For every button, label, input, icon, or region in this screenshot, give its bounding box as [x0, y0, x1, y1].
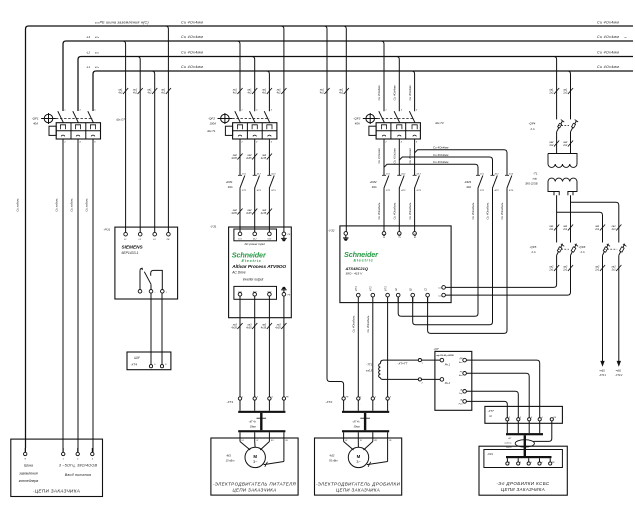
circuit breaker QF1 — [32, 109, 126, 143]
svg-text:2х2: 2х2 — [562, 92, 568, 95]
wire QF2 pole2 (L2) — [252, 57, 255, 112]
input panel box outline — [11, 439, 103, 496]
svg-text:=кВ1: =кВ1 — [599, 369, 605, 372]
svg-text:4х2: 4х2 — [161, 92, 166, 95]
current transformer TT1 — [366, 363, 380, 378]
svg-text:-Х31: -Х31 — [487, 452, 493, 456]
relay box QT — [434, 347, 472, 411]
svg-text:4х2: 4х2 — [247, 92, 252, 95]
svg-text:40А: 40А — [372, 185, 377, 189]
svg-text:1/L1: 1/L1 — [386, 174, 390, 176]
svg-text:Cu 4Окабель: Cu 4Окабель — [500, 202, 504, 220]
wire TT1 sec 1 — [380, 359, 440, 366]
svg-text:Cu 4Ох4мм: Cu 4Ох4мм — [181, 20, 203, 24]
screened cable M1 — [238, 411, 285, 433]
svg-text:1/L1: 1/L1 — [384, 233, 386, 238]
wire ATV900 output — [231, 318, 242, 397]
svg-text:Cu 4Окабель: Cu 4Окабель — [471, 202, 475, 220]
svg-text:-QF1: -QF1 — [32, 116, 39, 120]
svg-text:1/L1: 1/L1 — [480, 174, 484, 176]
svg-text:4х35: 4х35 — [231, 157, 237, 160]
wire PE left drop — [16, 198, 26, 452]
wire ATV900 output — [246, 318, 257, 397]
wire ATS48 T1 out — [352, 303, 359, 397]
wire QF5 out1 to ATS48 CL1 — [445, 255, 556, 287]
svg-text:-КМ1: -КМ1 — [226, 180, 233, 184]
wire M1 phase a — [240, 432, 250, 450]
wire QT out3 — [466, 391, 518, 417]
svg-text:-РЕ шина заземления н(С): -РЕ шина заземления н(С) — [98, 20, 149, 24]
svg-text:Рн.1: Рн.1 — [445, 363, 451, 367]
svg-text:Шк.Т1: Шк.Т1 — [208, 129, 216, 133]
wire M2 phase b — [358, 432, 362, 447]
svg-text:Шк.Т3: Шк.Т3 — [436, 121, 444, 125]
wire T1-QF6 branch left — [557, 212, 603, 222]
svg-text:6ЕР1433-1: 6ЕР1433-1 — [122, 251, 139, 255]
wire PSU L2 drop — [132, 57, 143, 233]
svg-text:4х2: 4х2 — [339, 92, 344, 95]
control box ШУ -ХТ4 — [127, 352, 171, 370]
svg-text:2/Т1: 2/Т1 — [385, 190, 390, 192]
svg-text:-УЗ1: -УЗ1 — [210, 224, 217, 228]
svg-text:4х2: 4х2 — [147, 92, 152, 95]
svg-text:38О - 415 V: 38О - 415 V — [346, 272, 364, 276]
svg-text:Cu кабель: Cu кабель — [85, 198, 89, 212]
svg-text:АТS48С21Q: АТS48С21Q — [345, 266, 369, 271]
svg-text:-ХТ1: -ХТ1 — [227, 400, 234, 404]
svg-text:1: 1 — [385, 109, 386, 111]
svg-text:ДВ: ДВ — [459, 358, 463, 360]
svg-text:1/L1: 1/L1 — [242, 174, 246, 176]
input panel terminals — [24, 448, 95, 461]
svg-text:40А: 40А — [355, 121, 360, 125]
power supply PS1 (SIEMENS) — [104, 227, 178, 299]
svg-text:2х1: 2х1 — [548, 228, 554, 231]
svg-text:Cu 4Окабель: Cu 4Окабель — [352, 315, 356, 333]
wire QF2 pole1 (L3) — [237, 41, 240, 111]
terminal XT=TT label — [397, 362, 407, 366]
wire KM2-ATS c — [408, 189, 415, 232]
svg-text:заземления: заземления — [18, 471, 38, 475]
svg-text:2х1: 2х1 — [548, 269, 554, 272]
svg-text:Cu 4Ох4мм: Cu 4Ох4мм — [433, 146, 448, 150]
svg-text:ЦЕПИ ЗАКАЗЧИКА: ЦЕПИ ЗАКАЗЧИКА — [501, 487, 545, 492]
contactor KM3 — [464, 174, 514, 193]
wire PSU L3 drop — [117, 41, 128, 232]
wire ATS48 T3 out — [387, 303, 389, 397]
svg-text:=кВ1: =кВ1 — [616, 369, 622, 372]
svg-text:АС роwеr inрut: АС роwеr inрut — [244, 242, 266, 246]
wire KM3-bypass b — [413, 189, 493, 325]
svg-text:-ХТ7: -ХТ7 — [487, 409, 494, 413]
svg-text:W1: W1 — [374, 440, 377, 442]
tick on QF2 feed — [261, 88, 272, 95]
svg-text:-QF4: -QF4 — [529, 122, 536, 126]
motor M1 — [226, 447, 266, 467]
wire XT2 PE drop — [319, 26, 344, 397]
screened cable M2 — [342, 411, 389, 433]
svg-text:АС Drivе: АС Drivе — [231, 270, 245, 274]
svg-text:Cu 4Ох4мм: Cu 4Ох4мм — [181, 65, 203, 69]
svg-text:4/Т2: 4/Т2 — [370, 286, 373, 291]
wire M1 phase c — [260, 432, 273, 450]
svg-text:2х1: 2х1 — [611, 228, 617, 231]
svg-text:Cu 4,0х1мм: Cu 4,0х1мм — [393, 148, 397, 163]
svg-text:Cu 4Ох4мм: Cu 4Ох4мм — [597, 20, 619, 24]
wire PSU L1 drop — [146, 71, 157, 232]
svg-text:-Т1: -Т1 — [533, 172, 538, 176]
wire QF4-T1 b — [562, 132, 573, 154]
motor box M1 outline — [211, 438, 298, 495]
wire QF2-KM1 a — [231, 139, 242, 175]
svg-text:3 ~5ОГц, 38О/4ООВ: 3 ~5ОГц, 38О/4ООВ — [59, 464, 98, 468]
bus corner labels — [95, 21, 100, 24]
wire KM3-bypass a — [398, 189, 478, 317]
svg-text:-ХТ4:2: -ХТ4:2 — [615, 374, 623, 377]
svg-text:3~: 3~ — [356, 460, 360, 464]
svg-text:Cu 4Ох4мм: Cu 4Ох4мм — [597, 65, 619, 69]
svg-text:4х2: 4х2 — [133, 92, 138, 95]
svg-text:4х2: 4х2 — [320, 92, 325, 95]
svg-text:4х35: 4х35 — [246, 157, 252, 160]
wire KM2-ATS b — [393, 189, 400, 232]
crusher caption — [496, 481, 550, 492]
svg-text:40А: 40А — [228, 185, 233, 189]
svg-text:2х2: 2х2 — [548, 144, 554, 147]
drive U1 (Altivar ATV900) — [210, 224, 291, 317]
svg-text:V1: V1 — [360, 440, 362, 442]
svg-text:1: 1 — [241, 109, 242, 111]
wire QF3 pole2 (L2) — [393, 57, 400, 112]
svg-text:Cu 4Ох4мм: Cu 4Ох4мм — [433, 153, 448, 157]
screened cable crusher — [504, 433, 543, 456]
svg-text:-ХТ4:1: -ХТ4:1 — [599, 374, 607, 377]
svg-text:-Эл ДРОБИЛКИ КСБС: -Эл ДРОБИЛКИ КСБС — [496, 481, 550, 486]
svg-text:3~: 3~ — [253, 460, 257, 464]
wire ATV900 output — [275, 318, 286, 397]
svg-text:ШУ: ШУ — [134, 356, 140, 360]
wire QF3 pole3 (L1) — [408, 71, 415, 111]
wire T1 sec left — [556, 195, 558, 222]
svg-text:Cu 4Окабель: Cu 4Окабель — [393, 202, 397, 220]
svg-text:Cu 4Окабель: Cu 4Окабель — [366, 315, 370, 333]
svg-text:2 А: 2 А — [530, 127, 535, 131]
svg-text:М: М — [253, 454, 257, 459]
svg-text:2х2: 2х2 — [548, 92, 554, 95]
svg-text:Cu 4Ох4мм: Cu 4Ох4мм — [181, 35, 203, 39]
svg-text:2х2: 2х2 — [562, 144, 568, 147]
wire XT7 PE to screen — [534, 421, 552, 442]
svg-text:-ш: -ш — [624, 37, 627, 39]
svg-text:-QF6: -QF6 — [579, 245, 586, 249]
wire XT7 down — [517, 421, 519, 433]
svg-text:-М2: -М2 — [329, 453, 335, 457]
svg-text:≈КГ 4х: ≈КГ 4х — [249, 421, 257, 424]
wire M2 phase c — [364, 432, 378, 450]
wire QF1 pole1 (L3) — [55, 139, 64, 452]
svg-text:4х35: 4х35 — [261, 157, 267, 160]
svg-text:40А: 40А — [466, 185, 471, 189]
wire M2 phase a — [344, 432, 354, 450]
L1 bus — [86, 65, 633, 111]
svg-text:2х1: 2х1 — [594, 228, 600, 231]
svg-text:W1: W1 — [271, 440, 274, 442]
wire QT out4 — [466, 401, 507, 417]
wire KM3-bypass c — [428, 189, 507, 334]
svg-text:4х35: 4х35 — [261, 327, 267, 330]
svg-text:тiр.: тiр. — [533, 176, 538, 180]
svg-text:SIEMENS: SIEMENS — [122, 244, 144, 249]
svg-text:Cu 4Ох4мм: Cu 4Ох4мм — [393, 86, 397, 101]
svg-text:≈КГ 4х: ≈КГ 4х — [352, 421, 360, 424]
wire QF6 out1 arrow — [599, 255, 607, 377]
svg-text:4х2: 4х2 — [262, 92, 267, 95]
svg-text:2/Т1: 2/Т1 — [241, 190, 246, 192]
wire PS1 out2 — [161, 293, 163, 365]
svg-text:-QF3: -QF3 — [353, 116, 360, 120]
svg-text:Cu кабель: Cu кабель — [16, 198, 20, 212]
svg-text:-ХТ=ТТ: -ХТ=ТТ — [397, 362, 407, 366]
wire QF3-KM2 c — [408, 139, 415, 175]
terminal strip XT1 — [227, 397, 290, 411]
svg-text:V1: V1 — [256, 440, 258, 442]
svg-text:Рн.2: Рн.2 — [445, 381, 451, 385]
svg-text:-ЦЕПИ ЗАКАЗЧИКА: -ЦЕПИ ЗАКАЗЧИКА — [33, 489, 80, 494]
svg-text:4х35: 4х35 — [246, 212, 252, 215]
wire T1 prim b (L1) — [562, 71, 573, 119]
motor box M2 outline — [315, 438, 402, 495]
wire T1-QF6 branch right — [571, 202, 619, 222]
svg-text:Cu 4,0х1мм: Cu 4,0х1мм — [408, 148, 412, 163]
svg-text:5х2,5: 5х2,5 — [506, 447, 512, 449]
wire KM1-ATV b — [246, 189, 257, 232]
svg-text:СL1: СL1 — [438, 288, 442, 290]
svg-text:Cu 4Ох4мм: Cu 4Ох4мм — [433, 160, 448, 164]
svg-text:-М1: -М1 — [226, 453, 232, 457]
svg-text:-QF5: -QF5 — [530, 245, 537, 249]
wire ATV900 PE drop — [276, 26, 287, 232]
wire bypass feed 2 — [399, 153, 492, 175]
svg-text:кабель: кабель — [504, 443, 512, 445]
wire KM2-ATS a — [377, 189, 384, 232]
contactor KM1 — [226, 174, 277, 193]
wire T1 prim a (L2) — [548, 57, 559, 120]
svg-text:6/Т3: 6/Т3 — [385, 286, 387, 291]
svg-text:4х2: 4х2 — [277, 92, 282, 95]
svg-text:100А: 100А — [210, 121, 217, 125]
wire T1 sec right — [570, 195, 572, 222]
svg-text:Cu кабель: Cu кабель — [55, 198, 59, 212]
wire bypass feed 3 — [384, 160, 478, 175]
svg-text:U1: U1 — [242, 440, 244, 442]
svg-text:5/L3: 5/L3 — [415, 233, 417, 238]
wire XT7 down — [506, 421, 508, 433]
wire QF1 pole3 (L1) — [85, 139, 94, 452]
svg-text:-ХТ4: -ХТ4 — [130, 363, 137, 367]
svg-text:М: М — [357, 454, 361, 459]
wire QF4-T1 a — [548, 132, 559, 154]
svg-text:Electric: Electric — [354, 258, 374, 263]
wire XT7 down — [528, 421, 530, 433]
svg-text:4х35: 4х35 — [231, 212, 237, 215]
svg-text:2/Т1: 2/Т1 — [356, 286, 358, 292]
svg-text:1: 1 — [509, 417, 510, 419]
wire QF3-KM2 b — [393, 139, 400, 175]
svg-text:ЦЕПИ ЗАКАЗЧИКА: ЦЕПИ ЗАКАЗЧИКА — [232, 487, 276, 492]
svg-text:3/L2: 3/L2 — [400, 233, 402, 238]
svg-text:кл0,5: кл0,5 — [366, 369, 373, 373]
wire ATS48 PE drop — [338, 26, 349, 232]
svg-text:-РU1: -РU1 — [104, 228, 111, 232]
svg-text:Cu 4Окабель: Cu 4Окабель — [377, 202, 381, 220]
svg-text:1/L1: 1/L1 — [238, 239, 242, 241]
svg-text:1: 1 — [64, 109, 65, 111]
wire QF2 pole3 (L1) — [266, 71, 269, 111]
transformer T1 — [525, 154, 577, 196]
svg-text:-L1: -L1 — [86, 65, 90, 69]
wire KM1-ATV a — [231, 189, 242, 232]
tick on QF2 feed — [246, 88, 257, 95]
wire bypass feed 1 — [415, 146, 507, 175]
svg-text:-L3: -L3 — [86, 35, 90, 39]
circuit breaker QF2 — [208, 109, 277, 143]
svg-text:2х1: 2х1 — [594, 269, 600, 272]
soft starter U2 (ATS48) — [328, 226, 451, 303]
svg-text:38О-22ОВ: 38О-22ОВ — [525, 181, 538, 185]
motor M2 — [329, 447, 369, 467]
svg-text:U1: U1 — [345, 440, 347, 442]
wire ATS48 T2 out (through CT) — [366, 303, 373, 397]
svg-text:тiр РН-43 у:22ОВ: тiр РН-43 у:22ОВ — [436, 354, 454, 357]
wire M1 PE — [264, 432, 289, 467]
svg-text:2 А: 2 А — [531, 250, 536, 254]
wire TT1 sec 2 — [380, 378, 440, 385]
wire QF3 pole1 (L3) — [377, 41, 384, 111]
svg-text:40А: 40А — [33, 121, 38, 125]
motor M2 caption — [316, 482, 401, 493]
wire PSU PE drop — [160, 26, 171, 232]
svg-text:2 А: 2 А — [580, 250, 585, 254]
wire QF5 out2 to ATS48 CL2 — [445, 255, 570, 295]
svg-text:Invеrtеr оutрut: Invеrtеr оutрut — [243, 277, 264, 281]
circuit breaker QF4 — [529, 120, 579, 132]
svg-text:1: 1 — [360, 397, 361, 399]
svg-text:4х2: 4х2 — [118, 92, 123, 95]
svg-text:Cu 4Ох4мм: Cu 4Ох4мм — [377, 86, 381, 101]
wire QT out1 — [466, 360, 539, 418]
svg-text:1: 1 — [242, 397, 243, 399]
svg-text:-ХТ2: -ХТ2 — [326, 400, 333, 404]
svg-text:2х1: 2х1 — [562, 228, 568, 231]
svg-text:35мм: 35мм — [250, 425, 256, 428]
terminal strip XT7 — [485, 406, 563, 423]
svg-text:Ввод питания: Ввод питания — [65, 473, 91, 477]
svg-text:4х2: 4х2 — [233, 92, 238, 95]
wire ATV900 output — [261, 318, 272, 397]
wire QF6 out2 arrow — [615, 255, 623, 377]
wire XT7 down — [539, 421, 541, 433]
wire QF2-KM1 c — [261, 139, 272, 175]
wire QF1 pole2 (L2) — [70, 139, 79, 452]
svg-text:15 кВт: 15 кВт — [226, 458, 236, 462]
svg-text:Cu 4Ох4мм: Cu 4Ох4мм — [181, 51, 203, 55]
L3 bus — [63, 35, 633, 111]
svg-text:1: 1 — [509, 462, 510, 464]
svg-text:Altivar Process АТV9ОО: Altivar Process АТV9ОО — [231, 264, 286, 270]
wire QT out2 — [466, 373, 529, 417]
svg-text:Шина: Шина — [24, 464, 33, 468]
svg-text:Cu 4Ох4мм: Cu 4Ох4мм — [597, 51, 619, 55]
svg-text:Electric: Electric — [242, 258, 262, 263]
wire QF3-KM2 a — [377, 139, 384, 175]
circuit breaker QF3 — [353, 109, 444, 143]
svg-text:2х1: 2х1 — [611, 269, 617, 272]
input panel text — [18, 464, 97, 494]
terminal strip XT2 — [326, 397, 392, 411]
svg-text:Cu 4Окабель: Cu 4Окабель — [486, 202, 490, 220]
motor M1 caption — [213, 482, 297, 493]
wire KM1-ATV c — [261, 189, 272, 232]
svg-text:2х1: 2х1 — [562, 269, 568, 272]
crusher terminal strip X31 — [484, 450, 563, 468]
svg-text:Cu 4Ох4мм: Cu 4Ох4мм — [408, 86, 412, 101]
svg-text:-УЗ2: -УЗ2 — [328, 228, 335, 232]
crusher box outline — [479, 446, 567, 495]
svg-text:1: 1 — [63, 459, 64, 461]
svg-text:-КМ3: -КМ3 — [464, 180, 471, 184]
svg-text:1: 1 — [422, 363, 423, 365]
contactor KM2 — [370, 174, 422, 193]
svg-text:Cu 4Ох4мм: Cu 4Ох4мм — [597, 35, 619, 39]
svg-text:35мм: 35мм — [354, 425, 360, 428]
svg-text:-ТТ1: -ТТ1 — [366, 363, 372, 367]
svg-text:контейнера: контейнера — [19, 479, 39, 483]
svg-text:4х35: 4х35 — [246, 327, 252, 330]
svg-text:Cu кабель: Cu кабель — [70, 198, 74, 212]
svg-text:-ЭЛЕКТРОДВИГАТЕЛЬ ПИТАТЕЛЯ: -ЭЛЕКТРОДВИГАТЕЛЬ ПИТАТЕЛЯ — [213, 482, 297, 487]
circuit breaker QF6 — [579, 222, 627, 272]
svg-text:4х35: 4х35 — [275, 327, 281, 330]
wire PS1 out1 — [150, 293, 152, 365]
wire M2 PE — [367, 432, 392, 467]
svg-text:55 кВт: 55 кВт — [329, 458, 339, 462]
circuit breaker QF5 — [530, 222, 579, 272]
svg-text:2/Т1: 2/Т1 — [479, 190, 484, 192]
svg-text:ЦЕПИ ЗАКАЗЧИКА: ЦЕПИ ЗАКАЗЧИКА — [336, 487, 380, 492]
svg-text:-КМ2: -КМ2 — [370, 180, 377, 184]
L2 bus — [78, 51, 633, 111]
svg-text:Cu 4Окабель: Cu 4Окабель — [408, 202, 412, 220]
svg-text:4х35: 4х35 — [231, 327, 237, 330]
tick on QF2 feed — [232, 88, 243, 95]
svg-text:Cu 4,0х1мм: Cu 4,0х1мм — [377, 148, 381, 163]
wire QF2-KM1 b — [246, 139, 257, 175]
svg-text:-QF2: -QF2 — [208, 116, 215, 120]
svg-text:Шк.О7: Шк.О7 — [117, 118, 126, 122]
svg-text:-ЭЛЕКТРОДВИГАТЕЛЬ ДРОБИЛКИ: -ЭЛЕКТРОДВИГАТЕЛЬ ДРОБИЛКИ — [316, 482, 401, 487]
wire M1 phase b — [255, 432, 259, 447]
svg-text:4х35: 4х35 — [261, 212, 267, 215]
svg-text:-L2: -L2 — [86, 51, 90, 55]
